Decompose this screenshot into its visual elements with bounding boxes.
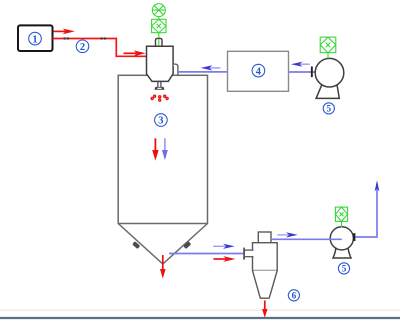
atomizer top cap bbox=[156, 38, 163, 46]
label 4 bbox=[252, 64, 265, 77]
coupling B bbox=[100, 37, 106, 39]
floor line (slate) bbox=[0, 317, 400, 319]
atomizer chamber (hot air distributor) bbox=[147, 46, 174, 81]
arrow feed B (red, right) bbox=[124, 50, 146, 56]
fan B1 stand bbox=[316, 85, 339, 99]
svg-text:4: 4 bbox=[256, 66, 262, 77]
exhaust line (blue) bbox=[355, 184, 377, 238]
green symbol: fan wheel (above atomizer) bbox=[152, 4, 165, 17]
nozzle stem bbox=[158, 81, 161, 87]
arrow hot air (blue, left) bbox=[201, 65, 221, 70]
arrow to cyclone (red, right) bbox=[214, 256, 236, 262]
label 5 (top) bbox=[323, 103, 334, 114]
arrow in-chamber (red, down) bbox=[152, 138, 158, 160]
svg-text:5: 5 bbox=[327, 104, 332, 114]
svg-text:5: 5 bbox=[342, 264, 347, 274]
label 5 (bottom) bbox=[338, 263, 349, 274]
svg-text:6: 6 bbox=[292, 291, 297, 301]
wire feed line (red) bbox=[53, 39, 147, 57]
cyclone inlet flange bbox=[243, 248, 245, 260]
wire green stem through cap bbox=[158, 39, 160, 46]
svg-text:1: 1 bbox=[32, 34, 37, 45]
label 2 bbox=[76, 40, 89, 53]
wire green stem 1 bbox=[158, 17, 160, 20]
filter F2 (above top fan) bbox=[320, 37, 336, 53]
atomizer air inlet port bbox=[173, 64, 178, 75]
arrow cyclone bottom (red, down) bbox=[262, 301, 267, 318]
wire green stem 4 bbox=[341, 221, 343, 227]
duct fan to heater (blue) bbox=[289, 71, 312, 73]
filter F3 (above bottom fan) bbox=[335, 207, 347, 221]
chamber 3 (drying chamber body) bbox=[118, 75, 207, 264]
duct chamber to cyclone (blue) bbox=[169, 253, 244, 255]
chamber foot right bbox=[183, 241, 191, 249]
cyclone inlet duct bbox=[244, 251, 255, 257]
arrow to cyclone (blue, right) bbox=[213, 244, 235, 249]
spray droplets (red) bbox=[151, 95, 169, 102]
fan B1 inlet flange bbox=[311, 67, 313, 78]
chamber foot left bbox=[132, 241, 140, 249]
floor line (light) bbox=[0, 309, 400, 311]
coupling A bbox=[63, 37, 69, 39]
filter F1 (square+diamond, above atomizer) bbox=[152, 19, 166, 32]
arrow exhaust (blue, up) bbox=[375, 180, 380, 191]
fan B2 stand bbox=[333, 248, 351, 259]
wire green stem 3 bbox=[327, 53, 329, 59]
arrow feed A (red, right) bbox=[53, 29, 75, 35]
heater E1 (box 4) bbox=[228, 51, 289, 91]
tank T1 (feed tank box) bbox=[18, 25, 53, 51]
arrow cyclone outlet (blue, right) bbox=[277, 232, 297, 237]
fan B2 (bottom blower 5) bbox=[330, 227, 353, 250]
wire green stem 2 bbox=[158, 33, 160, 39]
arrow chamber outlet (red, down) bbox=[160, 255, 166, 279]
label 3 bbox=[155, 114, 168, 127]
duct cyclone to fan (blue) bbox=[271, 238, 342, 240]
fan B2 outlet flange bbox=[353, 233, 355, 241]
label 6 bbox=[288, 290, 299, 301]
arrow in-chamber (blue, down) bbox=[162, 138, 168, 160]
svg-text:3: 3 bbox=[158, 116, 163, 127]
label 1 bbox=[29, 32, 42, 45]
arrow into heater (blue, left) bbox=[291, 62, 310, 67]
nozzle flange bbox=[154, 87, 164, 90]
fan B1 (top blower 5) bbox=[315, 58, 344, 87]
duct heater to atomizer (blue) bbox=[178, 71, 228, 73]
svg-text:2: 2 bbox=[80, 42, 85, 53]
cyclone S1 (separator 6) bbox=[253, 232, 278, 298]
